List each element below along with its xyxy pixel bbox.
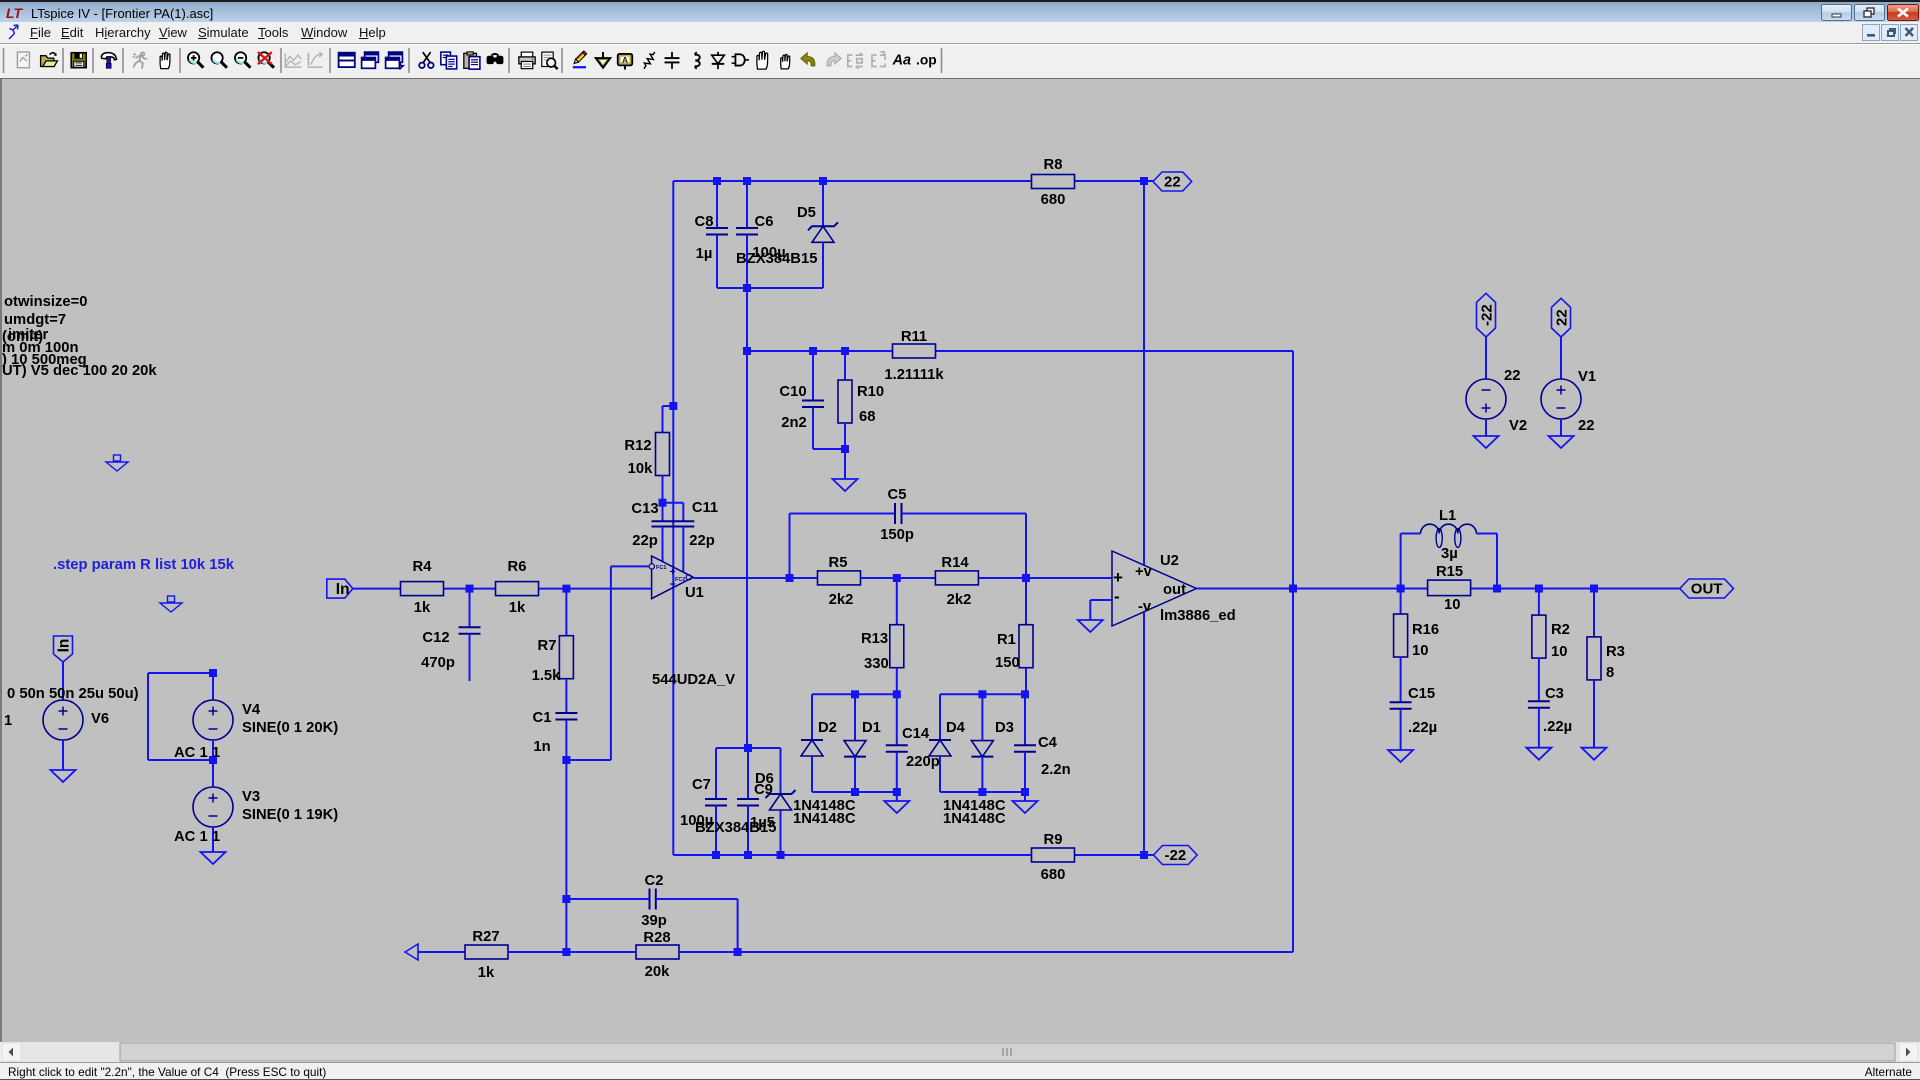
svg-text:C3: C3: [1545, 686, 1564, 702]
svg-text:SINE(0 1 20K): SINE(0 1 20K): [242, 720, 338, 736]
svg-text:V4: V4: [242, 702, 261, 718]
svg-text:C6: C6: [755, 214, 774, 230]
svg-text:-v: -v: [1138, 599, 1152, 615]
svg-text:R5: R5: [829, 555, 848, 571]
svg-text:SINE(0 1 19K): SINE(0 1 19K): [242, 807, 338, 823]
svg-text:1N4148C: 1N4148C: [793, 811, 856, 827]
svg-text:680: 680: [1041, 867, 1066, 883]
svg-text:R13: R13: [861, 631, 888, 647]
svg-text:C10: C10: [779, 384, 806, 400]
svg-text:C11: C11: [692, 500, 718, 516]
svg-text:68: 68: [859, 409, 875, 425]
svg-text:R14: R14: [941, 555, 969, 571]
svg-text:.step param R list 10k 15k: .step param R list 10k 15k: [53, 557, 235, 573]
svg-text:R16: R16: [1412, 622, 1439, 638]
svg-text:1µ5: 1µ5: [750, 815, 775, 831]
svg-text:39p: 39p: [641, 913, 667, 929]
svg-text:U1: U1: [685, 585, 704, 601]
svg-text:544UD2A_V: 544UD2A_V: [652, 672, 735, 688]
svg-text:-: -: [1114, 587, 1120, 606]
svg-text:R12: R12: [624, 438, 651, 454]
svg-text:22: 22: [1164, 174, 1181, 191]
svg-text:1n: 1n: [533, 739, 550, 755]
svg-text:R3: R3: [1606, 644, 1625, 660]
svg-text:330: 330: [864, 656, 889, 672]
svg-text:In: In: [56, 639, 73, 653]
svg-text:R28: R28: [643, 930, 670, 946]
svg-text:A: A: [622, 55, 628, 65]
svg-text:680: 680: [1041, 192, 1066, 208]
svg-text:R7: R7: [538, 638, 557, 654]
svg-text:22: 22: [1554, 309, 1571, 326]
svg-text:C5: C5: [888, 487, 907, 503]
svg-text:1k: 1k: [478, 965, 495, 981]
svg-text:R15: R15: [1436, 564, 1463, 580]
svg-text:D5: D5: [797, 205, 816, 221]
svg-text:10k: 10k: [628, 461, 653, 477]
svg-text:L1: L1: [1439, 508, 1456, 524]
svg-text:FC2: FC2: [675, 577, 685, 583]
svg-text:.22µ: .22µ: [1408, 720, 1437, 736]
svg-text:20k: 20k: [645, 964, 670, 980]
svg-text:-22: -22: [1479, 304, 1496, 326]
svg-text:8: 8: [1606, 665, 1614, 681]
svg-text:10: 10: [1551, 644, 1567, 660]
svg-text:1N4148C: 1N4148C: [943, 811, 1006, 827]
svg-text:C7: C7: [692, 777, 711, 793]
svg-text:R8: R8: [1044, 157, 1063, 173]
svg-text:In: In: [336, 581, 350, 598]
svg-text:UT) V5 dec 100 20 20k: UT) V5 dec 100 20 20k: [2, 363, 157, 379]
svg-text:R4: R4: [413, 559, 433, 575]
svg-text:C2: C2: [645, 873, 664, 889]
svg-text:2.2n: 2.2n: [1041, 762, 1071, 778]
svg-text:C13: C13: [631, 501, 658, 517]
svg-text:3µ: 3µ: [1441, 546, 1458, 562]
svg-text:D3: D3: [995, 720, 1014, 736]
svg-text:1.21111k: 1.21111k: [884, 367, 944, 383]
svg-text:+: +: [670, 566, 676, 578]
svg-text:150: 150: [995, 655, 1020, 671]
svg-text:R11: R11: [901, 329, 927, 345]
svg-text:C4: C4: [1038, 735, 1058, 751]
svg-text:1: 1: [4, 713, 12, 729]
svg-text:1µ: 1µ: [696, 246, 713, 262]
svg-text:10: 10: [1412, 643, 1428, 659]
svg-text:R6: R6: [508, 559, 527, 575]
svg-text:1.5k: 1.5k: [532, 668, 562, 684]
svg-text:out: out: [1163, 582, 1186, 598]
svg-text:D6: D6: [755, 771, 774, 787]
svg-text:R27: R27: [472, 929, 499, 945]
svg-text:C1: C1: [533, 710, 552, 726]
svg-text:V6: V6: [91, 711, 109, 727]
svg-text:R1: R1: [997, 632, 1016, 648]
svg-text:−: −: [670, 579, 676, 591]
svg-text:R9: R9: [1044, 832, 1063, 848]
svg-text:BZX384B15: BZX384B15: [736, 251, 817, 267]
svg-text:22p: 22p: [632, 533, 658, 549]
svg-text:D2: D2: [818, 720, 837, 736]
svg-text:-22: -22: [1164, 847, 1186, 864]
svg-text:R2: R2: [1551, 622, 1570, 638]
svg-text:V3: V3: [242, 789, 260, 805]
svg-text:AC 1 1: AC 1 1: [174, 745, 220, 761]
svg-text:LT: LT: [6, 5, 24, 21]
svg-text:22: 22: [1504, 368, 1520, 384]
svg-text:+v: +v: [1135, 564, 1153, 580]
svg-text:D1: D1: [862, 720, 881, 736]
svg-text:otwinsize=0: otwinsize=0: [4, 294, 87, 310]
svg-text:.op: .op: [916, 53, 937, 68]
svg-text:AC 1 1: AC 1 1: [174, 829, 220, 845]
svg-text:umdgt=7: umdgt=7: [4, 312, 66, 328]
svg-text:V1: V1: [1578, 369, 1596, 385]
svg-text:Aa: Aa: [892, 53, 911, 69]
svg-text:1k: 1k: [509, 600, 526, 616]
svg-text:220p: 220p: [906, 754, 940, 770]
svg-text:lm3886_ed: lm3886_ed: [1160, 608, 1236, 624]
svg-text:D4: D4: [946, 720, 966, 736]
svg-text:FC1: FC1: [656, 565, 666, 571]
svg-text:C15: C15: [1408, 686, 1435, 702]
svg-text:150p: 150p: [880, 527, 914, 543]
svg-text:.22µ: .22µ: [1543, 719, 1572, 735]
svg-text:470p: 470p: [421, 655, 455, 671]
svg-text:2n2: 2n2: [781, 415, 807, 431]
svg-text:10: 10: [1444, 597, 1460, 613]
svg-text:V2: V2: [1509, 418, 1527, 434]
svg-text:U2: U2: [1160, 553, 1179, 569]
svg-text:C14: C14: [902, 726, 930, 742]
svg-text:2k2: 2k2: [947, 592, 972, 608]
svg-text:0 50n 50n 25u 50u): 0 50n 50n 25u 50u): [7, 686, 139, 702]
svg-text:C12: C12: [422, 630, 449, 646]
svg-text:1k: 1k: [414, 600, 431, 616]
svg-text:22p: 22p: [689, 533, 715, 549]
svg-text:2k2: 2k2: [829, 592, 854, 608]
svg-text:22: 22: [1578, 418, 1594, 434]
svg-text:C8: C8: [695, 214, 714, 230]
svg-text:+: +: [1113, 568, 1123, 587]
svg-text:R10: R10: [857, 384, 884, 400]
svg-text:OUT: OUT: [1691, 581, 1723, 598]
